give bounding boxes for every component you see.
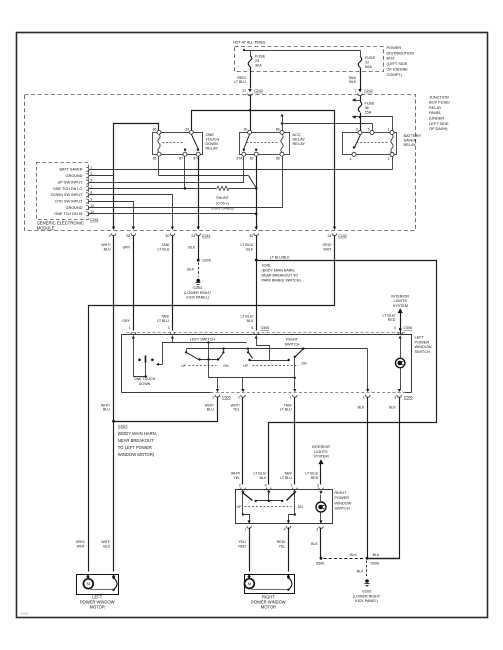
svg-text:JUNCTION: JUNCTION <box>429 94 449 99</box>
svg-text:MODULE: MODULE <box>37 225 55 230</box>
svg-text:(BODY MAIN HARN,: (BODY MAIN HARN, <box>262 268 295 272</box>
svg-text:C506: C506 <box>404 396 413 400</box>
svg-text:RELAY: RELAY <box>293 141 306 146</box>
svg-text:DN: DN <box>298 505 304 509</box>
svg-text:24: 24 <box>328 234 332 238</box>
svg-text:LT BLU/BLK: LT BLU/BLK <box>270 255 290 259</box>
svg-text:SWITCH: SWITCH <box>334 505 350 510</box>
svg-text:RELAY: RELAY <box>404 142 417 147</box>
svg-text:MOTOR: MOTOR <box>261 604 276 609</box>
svg-text:27: 27 <box>242 89 246 93</box>
svg-text:BLK: BLK <box>349 80 356 84</box>
svg-text:INTERIOR: INTERIOR <box>312 445 330 449</box>
svg-text:INTERIOR: INTERIOR <box>391 294 409 298</box>
svg-text:4: 4 <box>394 326 396 330</box>
svg-text:2: 2 <box>388 157 390 161</box>
svg-text:UP: UP <box>237 505 243 509</box>
svg-text:UP SW INPUT: UP SW INPUT <box>58 180 84 184</box>
svg-text:85: 85 <box>276 157 280 161</box>
svg-text:86: 86 <box>276 127 280 131</box>
svg-text:(UNDER: (UNDER <box>429 116 444 121</box>
svg-text:1: 1 <box>244 527 246 531</box>
svg-text:BLU: BLU <box>103 544 110 548</box>
svg-text:BLK: BLK <box>350 553 357 557</box>
svg-text:03808: 03808 <box>20 611 29 615</box>
svg-text:G203: G203 <box>193 286 202 290</box>
svg-text:7: 7 <box>354 89 356 93</box>
svg-text:BLK: BLK <box>311 542 318 546</box>
svg-text:DN: DN <box>223 364 229 368</box>
svg-text:WINDOW MOTOR): WINDOW MOTOR) <box>118 452 155 457</box>
svg-text:(LOWER RIGHT: (LOWER RIGHT <box>184 291 212 295</box>
svg-text:OF DASH): OF DASH) <box>429 126 448 131</box>
svg-text:WHT: WHT <box>77 544 86 548</box>
svg-text:1: 1 <box>363 396 365 400</box>
svg-text:RED: RED <box>238 544 246 548</box>
svg-text:30: 30 <box>165 234 169 238</box>
svg-text:50A: 50A <box>365 65 372 69</box>
svg-text:BLK: BLK <box>187 267 194 271</box>
svg-text:30: 30 <box>185 127 189 131</box>
svg-text:3: 3 <box>316 527 318 531</box>
svg-text:BLK: BLK <box>357 569 364 573</box>
svg-text:BATT SAVER: BATT SAVER <box>60 168 83 172</box>
svg-text:SYSTEM: SYSTEM <box>393 304 408 308</box>
svg-text:3: 3 <box>317 484 319 488</box>
svg-text:BLU: BLU <box>207 408 214 412</box>
svg-text:LIGHTS: LIGHTS <box>314 450 328 454</box>
svg-text:DN: DN <box>301 361 307 365</box>
svg-text:3: 3 <box>394 396 396 400</box>
svg-text:LEFT SWITCH: LEFT SWITCH <box>190 338 216 342</box>
svg-text:PANEL: PANEL <box>429 110 442 115</box>
svg-text:FUSE: FUSE <box>255 55 266 59</box>
svg-text:C243: C243 <box>254 89 263 93</box>
svg-text:S502: S502 <box>118 424 128 429</box>
svg-text:1: 1 <box>388 128 390 132</box>
svg-text:(LEFT SIDE: (LEFT SIDE <box>387 61 408 66</box>
svg-text:ONE TOUCH: ONE TOUCH <box>134 377 156 381</box>
svg-text:5: 5 <box>368 128 370 132</box>
svg-text:BOX FUSE/: BOX FUSE/ <box>429 100 451 105</box>
svg-text:85: 85 <box>153 157 157 161</box>
svg-text:RELAY: RELAY <box>206 146 219 151</box>
svg-text:COMPT): COMPT) <box>387 72 403 77</box>
svg-text:LT BLU: LT BLU <box>280 476 292 480</box>
svg-text:BLU: BLU <box>103 408 110 412</box>
svg-text:ONE TCH DN HI: ONE TCH DN HI <box>54 212 82 216</box>
svg-text:23: 23 <box>255 59 259 63</box>
svg-text:28: 28 <box>126 234 130 238</box>
svg-text:RIGHT: RIGHT <box>286 338 298 342</box>
svg-text:YEL: YEL <box>233 408 240 412</box>
svg-text:BOX: BOX <box>387 56 396 61</box>
svg-text:LT BLU: LT BLU <box>158 247 170 251</box>
svg-text:BLK: BLK <box>389 406 396 410</box>
svg-text:BLK: BLK <box>247 319 254 323</box>
svg-text:UP: UP <box>181 364 187 368</box>
svg-text:C242: C242 <box>338 234 347 238</box>
svg-text:NEAR BREAKOUT: NEAR BREAKOUT <box>118 438 154 443</box>
svg-text:3: 3 <box>168 326 170 330</box>
svg-text:GROUND: GROUND <box>66 174 83 178</box>
svg-text:30: 30 <box>244 127 248 131</box>
svg-text:YEL: YEL <box>279 544 286 548</box>
svg-text:4: 4 <box>265 484 267 488</box>
svg-text:PARK BRAKE SWITCH): PARK BRAKE SWITCH) <box>262 278 301 282</box>
svg-text:RED: RED <box>311 476 319 480</box>
svg-text:86: 86 <box>153 127 157 131</box>
svg-text:M: M <box>248 581 251 586</box>
svg-text:2: 2 <box>238 396 240 400</box>
svg-text:UP: UP <box>243 364 249 368</box>
svg-text:BLK: BLK <box>188 245 195 249</box>
svg-text:FUSE: FUSE <box>365 102 376 106</box>
svg-text:(BODY MAIN HARN,: (BODY MAIN HARN, <box>118 431 157 436</box>
svg-text:GRY: GRY <box>123 245 131 249</box>
svg-text:SHUNT: SHUNT <box>216 196 229 200</box>
svg-text:LEFT SIDE: LEFT SIDE <box>429 121 449 126</box>
svg-text:S506: S506 <box>371 562 379 566</box>
svg-text:RED: RED <box>388 318 396 322</box>
svg-text:3: 3 <box>356 128 358 132</box>
svg-text:C505: C505 <box>222 396 231 400</box>
svg-text:87A: 87A <box>237 157 244 161</box>
svg-text:ONE TCH DN LO: ONE TCH DN LO <box>53 187 83 191</box>
svg-text:(LOWER RIGHT: (LOWER RIGHT <box>353 594 381 598</box>
svg-text:RELAY: RELAY <box>429 105 442 110</box>
svg-text:S205: S205 <box>202 259 210 263</box>
svg-text:24: 24 <box>191 234 195 238</box>
svg-text:LT BLU: LT BLU <box>157 319 169 323</box>
svg-text:SWITCH: SWITCH <box>285 342 300 346</box>
svg-text:1: 1 <box>129 326 131 330</box>
svg-text:C243: C243 <box>364 89 373 93</box>
svg-text:S246: S246 <box>262 263 270 267</box>
svg-text:5: 5 <box>91 178 93 182</box>
svg-text:BLK: BLK <box>373 553 380 557</box>
svg-text:MOTOR: MOTOR <box>90 605 105 610</box>
svg-text:C243: C243 <box>202 234 211 238</box>
svg-text:C506: C506 <box>403 326 412 330</box>
svg-text:15A: 15A <box>365 111 372 115</box>
svg-text:1: 1 <box>291 484 293 488</box>
svg-text:SYSTEM: SYSTEM <box>313 455 328 459</box>
svg-text:C505: C505 <box>261 326 270 330</box>
svg-text:30: 30 <box>249 234 253 238</box>
svg-text:4: 4 <box>284 527 286 531</box>
svg-text:OF ENGINE: OF ENGINE <box>387 67 409 72</box>
svg-text:WHT: WHT <box>323 247 332 251</box>
svg-text:(0.05 v): (0.05 v) <box>216 201 229 205</box>
svg-text:36: 36 <box>365 106 369 110</box>
svg-text:BLU: BLU <box>104 247 111 251</box>
svg-text:LIGHTS: LIGHTS <box>394 299 408 303</box>
svg-text:2: 2 <box>239 484 241 488</box>
svg-text:2: 2 <box>212 396 214 400</box>
svg-text:DOWN SW INPUT: DOWN SW INPUT <box>51 193 83 197</box>
svg-text:DISTRIBUTION: DISTRIBUTION <box>387 50 415 55</box>
svg-text:M: M <box>87 581 90 586</box>
svg-text:TO LEFT POWER: TO LEFT POWER <box>118 445 152 450</box>
svg-text:9: 9 <box>91 198 93 202</box>
svg-text:LT BLU: LT BLU <box>280 408 292 412</box>
svg-text:BLK: BLK <box>358 406 365 410</box>
svg-text:22: 22 <box>365 61 369 65</box>
svg-text:87: 87 <box>250 157 254 161</box>
svg-text:GRY: GRY <box>122 319 130 323</box>
svg-text:S500: S500 <box>316 562 324 566</box>
svg-text:LT BLU: LT BLU <box>234 80 246 84</box>
svg-text:4: 4 <box>350 157 352 161</box>
svg-text:SWITCH: SWITCH <box>415 349 431 354</box>
svg-text:87: 87 <box>179 157 183 161</box>
svg-text:HOT AT ALL TIMES: HOT AT ALL TIMES <box>233 40 266 44</box>
svg-text:1: 1 <box>290 396 292 400</box>
svg-text:OTD SW INPUT: OTD SW INPUT <box>55 200 83 204</box>
svg-text:G203: G203 <box>362 590 371 594</box>
svg-text:C281: C281 <box>90 218 99 222</box>
svg-text:BLK: BLK <box>260 476 267 480</box>
svg-text:KICK PANEL): KICK PANEL) <box>186 296 209 300</box>
svg-text:KICK PANEL): KICK PANEL) <box>355 599 378 603</box>
svg-text:BLK: BLK <box>246 247 253 251</box>
svg-text:4: 4 <box>251 326 253 330</box>
svg-text:FUSE: FUSE <box>365 56 376 60</box>
svg-text:POWER: POWER <box>387 45 402 50</box>
svg-text:GROUND: GROUND <box>66 206 83 210</box>
svg-text:30A: 30A <box>255 64 262 68</box>
svg-text:9: 9 <box>109 234 111 238</box>
svg-text:NEAR BREAKOUT TO: NEAR BREAKOUT TO <box>262 273 299 277</box>
svg-text:DOWN: DOWN <box>139 382 151 386</box>
svg-text:YEL: YEL <box>233 476 240 480</box>
